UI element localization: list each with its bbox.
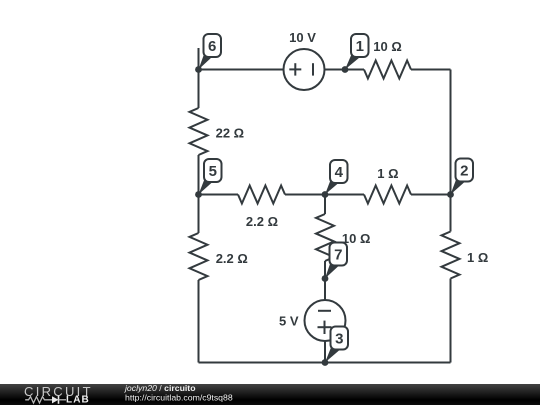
svg-text:10 Ω: 10 Ω <box>373 39 402 54</box>
V2 plus sign <box>318 326 332 328</box>
V1 plus sign <box>289 68 301 70</box>
wire: mid row node5 to 2.2ohm <box>199 194 239 196</box>
wire: mid row 2.2ohm to node4 <box>285 194 364 196</box>
node 3 flag <box>325 327 348 363</box>
svg-text:6: 6 <box>208 38 216 55</box>
V2 minus sign <box>318 310 331 312</box>
node 5 junction dot <box>195 191 202 198</box>
wire: right rail top segment <box>450 70 452 232</box>
node 1 flag <box>345 34 369 70</box>
logo diode <box>52 396 59 403</box>
svg-text:4: 4 <box>335 164 344 181</box>
node 4 flag <box>325 160 348 195</box>
resistor 10ohm top horizontal <box>364 61 411 79</box>
svg-text:5 V: 5 V <box>279 314 299 329</box>
node 1 junction dot <box>342 66 349 73</box>
node 4 junction dot <box>322 191 329 198</box>
wire: node7 to 5V source <box>324 279 326 301</box>
resistor 2.2ohm horizontal mid <box>238 186 285 204</box>
wire: left rail node6 to 22ohm <box>198 70 200 109</box>
svg-text:1 Ω: 1 Ω <box>467 250 488 265</box>
wire: top row, node6 to 10V source <box>199 69 284 71</box>
resistor 10ohm vertical mid <box>316 214 334 261</box>
footer bar <box>0 384 540 405</box>
node 2 flag <box>451 159 474 195</box>
svg-text:2: 2 <box>460 163 468 180</box>
wire: node6 stub up <box>198 48 200 70</box>
svg-text:http://circuitlab.com/c9tsq88: http://circuitlab.com/c9tsq88 <box>125 392 233 402</box>
svg-text:LAB: LAB <box>66 395 90 405</box>
node 3 junction dot <box>322 359 329 366</box>
svg-text:1 Ω: 1 Ω <box>377 166 398 181</box>
node 6 junction dot <box>195 66 202 73</box>
wire: 5V source to node3 <box>324 341 326 363</box>
svg-text:2.2 Ω: 2.2 Ω <box>246 214 278 229</box>
wire: left rail 2.2ohm to bottom <box>198 280 200 363</box>
wire: left rail 22ohm to node5 <box>198 155 200 195</box>
resistor 22ohm vertical left <box>190 108 208 155</box>
node 5 flag <box>199 159 222 195</box>
svg-text:2.2 Ω: 2.2 Ω <box>216 251 248 266</box>
wire: right rail bottom segment <box>450 279 452 363</box>
wire: node4 down to 10ohm <box>324 195 326 215</box>
wire: top resistor to right corner <box>411 69 451 71</box>
V1 minus sign (rotated, vertical bar) <box>312 63 314 75</box>
node 7 junction dot <box>322 275 329 282</box>
node 7 flag <box>325 243 347 279</box>
svg-text:7: 7 <box>334 247 342 264</box>
voltage source V2 5V circle <box>305 300 346 341</box>
logo resistor zigzag <box>25 397 52 403</box>
node 6 flag <box>199 34 222 70</box>
resistor 1ohm horizontal mid <box>364 186 411 204</box>
resistor 2.2ohm vertical left lower <box>190 233 208 280</box>
wire: mid row 1ohm to node2 <box>411 194 451 196</box>
wire: bottom row <box>199 362 451 364</box>
svg-text:1: 1 <box>356 38 364 55</box>
node 2 junction dot <box>447 191 454 198</box>
svg-text:5: 5 <box>209 163 217 180</box>
svg-text:3: 3 <box>335 331 343 348</box>
wire: 10V source to node1 to resistor <box>324 69 364 71</box>
wire: 10ohm to node7 <box>324 261 326 279</box>
wire: left rail node5 to 2.2ohm <box>198 195 200 234</box>
voltage source V1 10V circle <box>284 49 325 90</box>
svg-text:10 V: 10 V <box>289 30 316 45</box>
svg-text:22 Ω: 22 Ω <box>216 126 245 141</box>
resistor 1ohm vertical right <box>442 232 460 279</box>
